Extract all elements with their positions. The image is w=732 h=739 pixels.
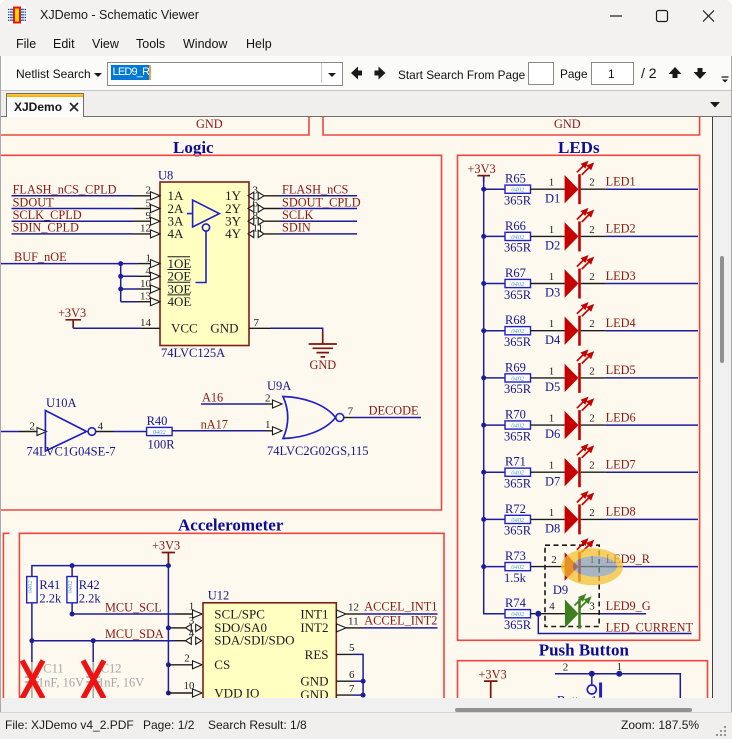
wire U12 CS pin 2 to bus [166, 653, 202, 669]
svg-text:0402: 0402 [67, 580, 74, 594]
svg-text:7: 7 [349, 683, 355, 695]
outer section box edge (partial) [3, 533, 9, 699]
svg-text:13: 13 [140, 291, 152, 303]
wire net MCU_SDA [29, 603, 201, 645]
svg-text:CS: CS [214, 657, 230, 672]
op-amp U8 body 74LVC125A [158, 169, 249, 361]
resistor R70 365R [481, 408, 532, 444]
LED D6 net LED6 [531, 399, 699, 442]
wire net DECODE from U9A pin 7 [344, 404, 421, 418]
svg-text:R74: R74 [505, 596, 527, 610]
wire U12 VDD_IO pin 10 to bus [166, 680, 202, 697]
svg-text:LED4: LED4 [606, 316, 636, 330]
power +3V3 (accelerometer) [152, 539, 180, 566]
power +3V3 (LEDs) [468, 162, 496, 182]
svg-text:5: 5 [349, 642, 355, 654]
svg-text:R65: R65 [505, 172, 526, 186]
svg-text:10: 10 [184, 680, 196, 692]
svg-text:7: 7 [348, 406, 354, 418]
svg-text:DECODE: DECODE [369, 404, 419, 418]
svg-text:BUF_nOE: BUF_nOE [14, 250, 67, 264]
LEDs section box [458, 155, 700, 640]
svg-text:D9: D9 [553, 583, 568, 597]
svg-text:VDD IO: VDD IO [214, 685, 259, 698]
tab bar [1, 90, 731, 117]
wire net SDOUT to U8 [12, 195, 161, 212]
svg-text:1.5k: 1.5k [504, 571, 527, 585]
op-amp U9A NOR gate 74LVC2G02GS,115 [267, 379, 369, 458]
svg-text:INT2: INT2 [300, 620, 328, 635]
svg-text:1: 1 [549, 224, 555, 236]
svg-text:4Y: 4Y [225, 226, 242, 241]
svg-text:D2: D2 [545, 239, 560, 253]
title bar [0, 0, 732, 32]
svg-text:2: 2 [589, 460, 595, 472]
horizontal scrollbar [1, 698, 713, 712]
svg-text:R41: R41 [39, 578, 60, 592]
svg-text:U10A: U10A [46, 396, 77, 410]
svg-text:GND: GND [310, 358, 337, 372]
svg-text:R70: R70 [505, 408, 526, 422]
resistor R74 365R [504, 596, 532, 632]
svg-text:2: 2 [265, 393, 271, 405]
svg-text:R68: R68 [505, 313, 526, 327]
svg-text:365R: 365R [504, 429, 532, 443]
svg-text:2: 2 [589, 224, 595, 236]
svg-text:1: 1 [549, 318, 555, 330]
LED D3 net LED3 [531, 257, 699, 300]
svg-text:5: 5 [146, 197, 152, 209]
svg-text:12: 12 [348, 602, 359, 614]
svg-text:R40: R40 [147, 414, 168, 428]
wire input to U10A pin 2 [0, 420, 47, 435]
wire +3V3 rail to R41 R42 [32, 563, 171, 576]
svg-text:D5: D5 [545, 380, 560, 394]
svg-text:11: 11 [348, 615, 359, 627]
wire net LED_CURRENT [535, 611, 693, 635]
capacitor C11 1nF (excluded) [25, 641, 84, 698]
svg-text:74LVC125A: 74LVC125A [161, 346, 225, 360]
svg-text:6: 6 [349, 669, 355, 681]
svg-text:D3: D3 [545, 286, 560, 300]
svg-text:1: 1 [549, 271, 555, 283]
svg-text:D6: D6 [545, 427, 560, 441]
svg-text:Push Button: Push Button [539, 641, 630, 660]
search highlight ellipse [561, 548, 623, 585]
svg-text:1: 1 [265, 419, 271, 431]
svg-text:2: 2 [589, 177, 595, 189]
svg-text:R69: R69 [505, 360, 526, 374]
svg-text:LEDs: LEDs [558, 138, 600, 157]
svg-text:4A: 4A [168, 226, 185, 241]
svg-text:2: 2 [184, 653, 190, 665]
svg-text:LED_CURRENT: LED_CURRENT [606, 621, 694, 635]
svg-text:GND: GND [196, 117, 223, 131]
wire net ACCEL_INT2 from U12 pin 11 [337, 613, 438, 632]
wire net SDIN_CPLD to U8 [12, 221, 161, 238]
wire +3V3 bus (LEDs column) [484, 176, 505, 614]
svg-text:1: 1 [189, 601, 195, 613]
status bar [0, 712, 732, 739]
svg-text:2: 2 [589, 413, 595, 425]
wire net nA17 R40 to U9A pin 1 [172, 418, 282, 435]
svg-text:R73: R73 [505, 549, 526, 563]
svg-text:4: 4 [98, 420, 104, 432]
svg-text:D4: D4 [545, 333, 561, 347]
resistor R65 365R [481, 172, 532, 208]
svg-text:1: 1 [549, 413, 555, 425]
svg-text:7: 7 [254, 317, 260, 329]
svg-text:14: 14 [140, 317, 152, 329]
LED D9 dual (red/green) dashed box [545, 545, 599, 626]
section box top-left (partial) [0, 116, 309, 135]
svg-text:4: 4 [549, 601, 555, 613]
wire push button net [555, 661, 680, 699]
svg-text:1nF, 16V: 1nF, 16V [38, 676, 84, 690]
Accelerometer section box [19, 533, 444, 699]
nav arrows [350, 66, 390, 80]
svg-text:Accelerometer: Accelerometer [178, 516, 284, 535]
svg-text:1: 1 [146, 252, 152, 264]
svg-text:2: 2 [589, 271, 595, 283]
page edge [712, 117, 713, 698]
resistor R42 2.2k [67, 577, 102, 606]
variant X mark over C11 [22, 661, 43, 699]
svg-text:2: 2 [589, 318, 595, 330]
svg-text:LED2: LED2 [606, 222, 636, 236]
svg-text:365R: 365R [504, 618, 532, 632]
svg-text:365R: 365R [504, 335, 532, 349]
LED D2 net LED2 [531, 210, 699, 253]
resistor R72 365R [481, 502, 532, 538]
svg-text:10: 10 [140, 278, 152, 290]
svg-text:nA17: nA17 [201, 418, 228, 432]
schematic canvas [1, 117, 713, 698]
window controls [606, 8, 726, 24]
svg-text:1: 1 [549, 507, 555, 519]
wire U12 GND pin 6 [336, 669, 365, 684]
svg-text:D7: D7 [545, 474, 560, 488]
svg-text:D8: D8 [545, 522, 560, 536]
svg-text:365R: 365R [504, 241, 532, 255]
junction dots BUF_nOE [118, 261, 123, 266]
svg-text:2: 2 [589, 507, 595, 519]
section box top-right (partial) [323, 116, 700, 135]
svg-text:+3V3: +3V3 [479, 668, 507, 682]
svg-text:INT1: INT1 [300, 606, 328, 621]
resistor R41 2.2k [27, 577, 62, 606]
svg-text:+3V3: +3V3 [58, 306, 86, 320]
wire +3V3 bus down (accelerometer) [167, 566, 169, 693]
svg-text:2.2k: 2.2k [39, 592, 62, 606]
Push Button section box [458, 661, 708, 699]
LED D9 red half net LED9_R [531, 540, 699, 597]
svg-text:VCC: VCC [171, 320, 198, 335]
toolbar [1, 56, 731, 90]
LED D8 net LED8 [531, 493, 699, 536]
svg-text:R66: R66 [505, 219, 526, 233]
Logic section box [0, 155, 442, 510]
resistor R67 365R [481, 266, 532, 302]
svg-text:+3V3: +3V3 [152, 539, 180, 553]
svg-text:LED8: LED8 [606, 505, 636, 519]
svg-text:2: 2 [589, 365, 595, 377]
svg-text:LED3: LED3 [606, 269, 636, 283]
svg-text:0402: 0402 [511, 422, 525, 429]
svg-text:2.2k: 2.2k [79, 592, 102, 606]
wire net SDIN from U8 [248, 221, 357, 238]
wire net BUF_nOE to U8 OE pins [0, 250, 160, 306]
svg-text:1: 1 [549, 460, 555, 472]
svg-text:MCU_SCL: MCU_SCL [105, 601, 162, 615]
LED D9 green half net LED9_G [531, 596, 651, 629]
menu bar [0, 32, 732, 56]
svg-text:365R: 365R [504, 288, 532, 302]
wire U12 RES pin 5 to GND pins [336, 642, 363, 695]
op-amp U12 accelerometer body [203, 589, 336, 703]
svg-text:U12: U12 [208, 589, 230, 603]
wire net FLASH_nCS from U8 [248, 183, 357, 200]
wire net ACCEL_INT1 from U12 pin 12 [337, 600, 438, 618]
svg-text:2: 2 [563, 661, 569, 673]
svg-text:GND: GND [554, 117, 581, 131]
wire +3V3 to U8 VCC pin 14 [73, 317, 160, 329]
svg-text:GND: GND [210, 320, 238, 335]
ground symbol GND [309, 332, 337, 373]
svg-text:74LVC1G04SE-7: 74LVC1G04SE-7 [27, 445, 116, 459]
svg-text:4: 4 [146, 265, 152, 277]
svg-text:R72: R72 [505, 502, 526, 516]
app icon [8, 6, 26, 24]
svg-text:1nF, 16V: 1nF, 16V [98, 676, 144, 690]
svg-text:1: 1 [549, 365, 555, 377]
wire net FLASH_nCS_CPLD to U8 [12, 183, 161, 200]
svg-text:R71: R71 [505, 455, 526, 469]
svg-text:1: 1 [617, 661, 623, 673]
svg-text:RES: RES [305, 647, 329, 662]
svg-text:U8: U8 [158, 169, 173, 183]
svg-text:365R: 365R [504, 382, 532, 396]
power +3V3 (U8) [58, 306, 86, 328]
wire net SDOUT_CPLD from U8 [248, 195, 361, 212]
wire net A16 to U9A pin 2 [201, 391, 282, 409]
svg-text:11: 11 [253, 223, 264, 235]
svg-text:Logic: Logic [173, 138, 214, 157]
svg-text:LED9_G: LED9_G [606, 599, 651, 613]
vertical scrollbar [714, 117, 731, 698]
resistor R40 100R [147, 414, 176, 452]
push button S1 [557, 674, 601, 708]
svg-text:6: 6 [253, 197, 259, 209]
resistor R71 365R [481, 455, 532, 491]
svg-text:0402: 0402 [153, 429, 167, 436]
svg-text:365R: 365R [504, 477, 532, 491]
svg-text:12: 12 [140, 223, 151, 235]
power +3V3 (push button) [479, 668, 507, 700]
svg-text:100R: 100R [148, 438, 176, 452]
svg-text:C11: C11 [43, 662, 63, 676]
svg-text:2: 2 [146, 185, 152, 197]
transistor U10A inverter 74LVC1G04SE-7 [27, 396, 116, 459]
resistor R73 1.5k [481, 549, 530, 585]
svg-text:R42: R42 [79, 578, 100, 592]
svg-text:MCU_SDA: MCU_SDA [105, 627, 164, 641]
svg-text:365R: 365R [504, 194, 532, 208]
svg-text:SDIN_CPLD: SDIN_CPLD [13, 221, 79, 235]
wire net SCLK_CPLD to U8 [12, 208, 161, 225]
svg-text:SCL/SPC: SCL/SPC [214, 606, 265, 621]
capacitor C12 1nF (excluded) [86, 638, 144, 698]
resistor R66 365R [481, 219, 532, 255]
svg-text:U9A: U9A [267, 379, 291, 393]
variant X mark over C12 [83, 661, 104, 699]
svg-text:LED1: LED1 [606, 175, 636, 189]
svg-text:3: 3 [253, 185, 259, 197]
resistor R68 365R [481, 313, 532, 349]
svg-text:SDIN: SDIN [282, 221, 311, 235]
svg-text:2: 2 [30, 420, 36, 432]
svg-text:2: 2 [551, 554, 557, 566]
svg-text:0402: 0402 [27, 580, 34, 594]
wire U12 pin 3 to +3V3 bus [166, 615, 202, 632]
svg-text:4OE: 4OE [168, 294, 192, 309]
svg-text:ACCEL_INT2: ACCEL_INT2 [364, 613, 437, 627]
svg-text:+3V3: +3V3 [468, 162, 496, 176]
svg-text:1: 1 [549, 177, 555, 189]
svg-text:LED6: LED6 [606, 410, 636, 424]
combo box [107, 62, 343, 86]
LED D4 net LED4 [531, 304, 699, 347]
svg-text:74LVC2G02GS,115: 74LVC2G02GS,115 [267, 444, 369, 458]
LED D1 net LED1 [531, 163, 699, 206]
resistor R69 365R [481, 360, 532, 396]
svg-text:R67: R67 [505, 266, 526, 280]
svg-text:9: 9 [146, 210, 152, 222]
wire U12 GND pin 7 [336, 683, 365, 698]
LED D7 net LED7 [531, 446, 699, 489]
wire net SCLK from U8 [248, 208, 357, 225]
LED D5 net LED5 [531, 352, 699, 395]
svg-text:LED7: LED7 [606, 458, 636, 472]
wire net MCU_SCL [70, 601, 202, 619]
svg-text:365R: 365R [504, 524, 532, 538]
svg-text:SDA/SDI/SDO: SDA/SDI/SDO [214, 633, 294, 648]
svg-text:A16: A16 [202, 391, 223, 405]
svg-text:3: 3 [589, 601, 595, 613]
svg-text:3: 3 [189, 615, 195, 627]
svg-text:8: 8 [253, 210, 259, 222]
wire U8 GND pin 7 to ground [249, 317, 323, 332]
svg-text:LED5: LED5 [606, 363, 636, 377]
svg-text:GND: GND [300, 687, 328, 698]
svg-text:D1: D1 [545, 191, 560, 205]
svg-text:ACCEL_INT1: ACCEL_INT1 [364, 600, 437, 614]
wire U10A out to R40 [96, 420, 147, 432]
